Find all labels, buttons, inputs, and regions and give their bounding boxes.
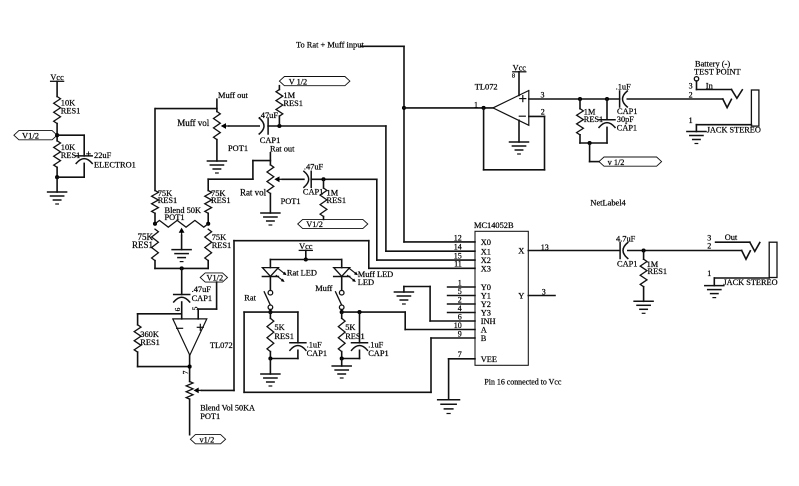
wire (to output jack) — [628, 250, 742, 252]
svg-text:TL072: TL072 — [210, 341, 233, 350]
label Rat out — [270, 145, 295, 154]
node (Rat RC) — [268, 356, 272, 360]
svg-text:RES1: RES1 — [648, 267, 668, 276]
svg-text:CAP1: CAP1 — [192, 294, 212, 303]
svg-text:VEE: VEE — [481, 355, 497, 364]
resistor RES1 1M (output) — [640, 251, 667, 287]
ground (Rat pot) — [261, 194, 280, 226]
svg-text:TEST POINT: TEST POINT — [694, 68, 741, 77]
svg-text:RES1: RES1 — [283, 99, 303, 108]
wire net X0 (buffer out) — [361, 46, 476, 242]
svg-text:1: 1 — [474, 100, 478, 109]
capacitor CAP1 30pF — [599, 99, 637, 143]
wire net X3 (blend wiper to mux) — [202, 241, 476, 391]
ground (blend wiper) — [172, 235, 191, 261]
jack body (output) — [769, 242, 777, 277]
svg-text:X0: X0 — [481, 238, 491, 247]
svg-text:NetLabel4: NetLabel4 — [590, 198, 626, 207]
svg-text:V1/2: V1/2 — [207, 274, 224, 283]
resistor RES1 5K (Rat) — [267, 312, 294, 358]
svg-text:Out: Out — [725, 233, 738, 242]
pot Rat vol POT1 — [240, 165, 301, 206]
wire — [56, 167, 58, 177]
svg-text:2: 2 — [541, 108, 545, 117]
resistor RES1 75K (bottom left) — [132, 229, 158, 268]
ground (VEE) — [438, 400, 460, 414]
svg-text:1: 1 — [707, 269, 711, 278]
IC U3 MC14052B — [474, 221, 528, 365]
wire — [269, 277, 271, 291]
wire net INH — [404, 287, 475, 322]
svg-text:.47uF: .47uF — [259, 111, 279, 120]
capacitor CAP1 .1uF (series) — [616, 82, 638, 116]
svg-text:X: X — [518, 246, 524, 256]
svg-text:.1uF: .1uF — [616, 82, 631, 91]
wire (wiper to cap) — [282, 178, 304, 180]
wire — [269, 310, 271, 313]
wire (to pin 6) — [181, 302, 183, 319]
wire (LED rail) — [270, 259, 341, 261]
pot Blend Vol 50KA POT1 — [186, 382, 255, 421]
node (output) — [642, 248, 646, 252]
svg-text:22uF: 22uF — [94, 151, 112, 160]
jack pin 1 (out) — [707, 269, 769, 278]
ground (Rat RC) — [261, 359, 280, 387]
svg-text:7: 7 — [458, 350, 462, 359]
LED Muff LED — [334, 260, 394, 288]
svg-text:Muff: Muff — [315, 284, 332, 293]
jack pin 3 (In) — [689, 82, 743, 99]
node (U2 out) — [188, 365, 192, 369]
wire net VEE — [449, 359, 475, 400]
ground (output jack) — [705, 278, 724, 298]
pot Muff vol POT1 — [177, 112, 248, 154]
svg-text:RES1: RES1 — [345, 332, 365, 341]
wire — [57, 163, 84, 177]
pin X out 13 — [528, 243, 619, 252]
resistor RES1 1M (U1 bias) — [577, 99, 604, 143]
svg-text:Rat vol: Rat vol — [240, 188, 267, 198]
svg-text:Pin 16 connected to Vcc: Pin 16 connected to Vcc — [484, 377, 561, 386]
wire net B (Rat select) — [244, 312, 475, 392]
svg-text:TL072: TL072 — [475, 82, 498, 91]
svg-text:RES1: RES1 — [61, 106, 81, 115]
wire (U2 output) — [189, 355, 191, 381]
svg-text:4.7uF: 4.7uF — [616, 234, 636, 243]
resistor R 10K (upper) — [54, 97, 81, 124]
resistor RES1 75K (top right) — [205, 179, 231, 224]
pin 2 feedback loop — [484, 108, 545, 170]
svg-text:Rat LED: Rat LED — [287, 269, 317, 278]
wire net X1 (Muff to mux) — [386, 126, 475, 251]
svg-text:9: 9 — [458, 329, 462, 338]
resistor RES1 75K (bottom right) — [205, 229, 231, 268]
capacitor CAP1 .47uF (blend) — [174, 285, 212, 303]
wire net A (Muff select) — [342, 312, 475, 329]
IC output labels X Y — [518, 246, 524, 301]
resistor RES1 360K (feedback) — [134, 314, 189, 367]
svg-text:RES1: RES1 — [132, 240, 153, 250]
svg-text:In: In — [706, 82, 714, 91]
jack pin 3 (Out) — [707, 233, 760, 251]
net flag V 1/2 (Muff) — [279, 77, 350, 87]
switch Muff — [315, 284, 344, 310]
svg-text:.47uF: .47uF — [304, 163, 324, 172]
svg-text:V 1/2: V 1/2 — [289, 77, 308, 86]
svg-text:POT1: POT1 — [165, 213, 185, 222]
wire (to input jack) — [627, 98, 723, 100]
pin stub Y3 — [448, 312, 475, 314]
resistor R 10K (lower) — [54, 141, 81, 168]
svg-text:CAP1: CAP1 — [368, 349, 388, 358]
svg-text:v1/2: v1/2 — [200, 435, 215, 444]
svg-text:11: 11 — [454, 260, 462, 269]
wire — [590, 143, 599, 162]
ground (U1) — [510, 120, 529, 154]
test point TEST POINT — [694, 68, 741, 90]
wire (blend sum) — [155, 267, 208, 269]
svg-text:RES1: RES1 — [274, 332, 294, 341]
wire (wiper to cap) — [229, 125, 259, 127]
wire (Rat out to 75K) — [208, 161, 270, 180]
node (30pF top) — [605, 97, 609, 101]
ground (output 1M) — [634, 287, 653, 314]
jack pin 2 — [689, 91, 732, 108]
svg-text:5: 5 — [191, 306, 200, 310]
wire — [56, 124, 58, 141]
capacitor ELECTRO1 22uF — [76, 150, 136, 170]
svg-text:+: + — [86, 150, 91, 160]
pin stub Y2 — [448, 303, 475, 305]
node (Muff sw) — [340, 310, 344, 314]
svg-text:13: 13 — [541, 243, 549, 252]
node (blend sum) — [180, 266, 184, 270]
jack body (input) — [751, 90, 759, 126]
node (Rat sw) — [268, 310, 272, 314]
pin 1 wire — [404, 100, 493, 109]
svg-text:Rat: Rat — [244, 294, 256, 303]
wire — [181, 268, 183, 294]
svg-text:1: 1 — [689, 116, 693, 125]
capacitor CAP1 .47uF (Muff) — [259, 111, 281, 145]
net flag v1/2 (blend vol) — [190, 435, 225, 445]
node (divider bottom) — [55, 175, 59, 179]
node (Vcc LEDs) — [304, 257, 308, 261]
svg-text:V1/2: V1/2 — [306, 220, 323, 229]
svg-text:2: 2 — [689, 91, 693, 100]
wire (pot bottom) — [189, 399, 191, 435]
node (1M top) — [578, 97, 582, 101]
note Pin 16 — [484, 377, 561, 386]
op-amp U2 TL072 — [173, 319, 233, 355]
svg-text:Rat out: Rat out — [270, 145, 295, 154]
ground (divider) — [48, 177, 67, 204]
power Vcc (left divider) — [50, 73, 64, 96]
wire net X2 (Rat to mux) — [377, 179, 475, 260]
svg-text:CAP1: CAP1 — [617, 124, 637, 133]
svg-text:2: 2 — [707, 242, 711, 251]
node (divider mid) — [55, 133, 59, 137]
pin Y out 3 — [528, 288, 555, 297]
svg-text:CAP1: CAP1 — [617, 260, 637, 269]
label TL072 (U1) — [475, 82, 498, 91]
net flag V1/2 (Rat) — [298, 219, 368, 229]
label JACK STEREO (output) — [723, 278, 777, 287]
wire (Rat out stub) — [269, 153, 271, 165]
svg-text:Muff out: Muff out — [218, 91, 249, 100]
svg-text:POT1: POT1 — [228, 144, 248, 153]
node (bias net) — [588, 141, 592, 145]
jack pin 1 — [689, 116, 752, 125]
capacitor CAP1 .1uF (Rat) — [290, 312, 327, 358]
label JACK STEREO (input) — [707, 125, 761, 134]
svg-text:RES1: RES1 — [158, 196, 178, 205]
ground (input jack) — [687, 125, 706, 144]
resistor RES1 5K (Muff) — [338, 312, 364, 358]
wire (Muff signal) — [268, 125, 386, 127]
svg-text:7: 7 — [181, 370, 190, 374]
svg-text:8: 8 — [512, 73, 515, 80]
svg-text:3: 3 — [541, 91, 545, 100]
svg-text:X1: X1 — [481, 247, 491, 256]
svg-text:Muff vol: Muff vol — [177, 118, 210, 128]
svg-text:JACK STEREO: JACK STEREO — [707, 125, 761, 134]
svg-text:RES1: RES1 — [211, 196, 231, 205]
label Muff out — [218, 91, 249, 100]
label NetLabel4 — [590, 198, 626, 207]
node (X0/op-amp) — [402, 106, 406, 110]
pin stub Y1 — [448, 295, 475, 297]
svg-text:B: B — [481, 334, 487, 343]
wire (to electro cap) — [57, 135, 84, 156]
ground (INH) — [394, 287, 413, 305]
capacitor CAP1 .1uF (Muff) — [352, 312, 389, 358]
switch Rat — [244, 290, 272, 309]
node (Muff cap tap) — [357, 310, 361, 314]
pin 3 wire — [529, 91, 620, 100]
node (Muff RC) — [340, 356, 344, 360]
jack pin 2 (out) — [707, 242, 750, 260]
ground (Muff RC) — [332, 359, 351, 379]
svg-text:3: 3 — [689, 82, 693, 91]
wire (Muff to 75K) — [154, 109, 156, 191]
svg-text:LED: LED — [358, 278, 374, 287]
wire — [342, 358, 360, 360]
label Battery (-) — [695, 59, 730, 68]
ground (Muff pot) — [207, 140, 226, 173]
IC pin numbers — [454, 233, 462, 359]
wire (Rat signal) — [311, 178, 377, 180]
svg-text:12: 12 — [454, 233, 462, 242]
power Vcc (U1) — [512, 64, 526, 96]
svg-text:To Rat + Muff input: To Rat + Muff input — [296, 40, 364, 49]
svg-text:14: 14 — [454, 243, 462, 252]
svg-text:Y: Y — [518, 291, 524, 301]
node (Muff cap/1M) — [277, 124, 281, 128]
IC pin name labels — [481, 238, 497, 364]
wire (Muff out) — [155, 99, 217, 111]
net flag v 1/2 (U1 bias) — [599, 157, 662, 167]
resistor RES1 1M (Muff bias) — [276, 86, 303, 126]
svg-text:RES1: RES1 — [327, 196, 347, 205]
net flag V1/2 (U2 bias) — [200, 273, 227, 283]
svg-text:MC14052B: MC14052B — [474, 221, 514, 230]
svg-text:v 1/2: v 1/2 — [608, 158, 625, 167]
wire (to pin 5) — [198, 282, 216, 319]
node (blend right) — [206, 222, 210, 226]
node (feedback) — [482, 106, 486, 110]
svg-text:RES1: RES1 — [212, 241, 232, 250]
label To Rat + Muff input — [296, 40, 364, 49]
pin label 6 — [173, 307, 182, 311]
svg-text:6: 6 — [173, 307, 182, 311]
wire — [341, 310, 343, 313]
pin stub Y0 — [448, 286, 475, 288]
wire — [341, 277, 343, 291]
LED Rat LED — [262, 260, 317, 283]
wire — [580, 142, 607, 144]
svg-text:V1/2: V1/2 — [22, 130, 39, 140]
node (blend left) — [153, 222, 157, 226]
svg-text:RES1: RES1 — [140, 338, 160, 347]
resistor RES1 1M (Rat bias) — [320, 179, 346, 219]
svg-text:POT1: POT1 — [281, 197, 301, 206]
svg-text:POT1: POT1 — [200, 412, 220, 421]
op-amp U1 TL072 — [493, 91, 529, 126]
svg-text:ELECTRO1: ELECTRO1 — [94, 161, 136, 170]
pin label 7 — [181, 370, 190, 374]
wire — [270, 358, 298, 360]
capacitor CAP1 4.7uF — [616, 234, 637, 268]
pin label 5 — [191, 306, 200, 310]
svg-text:CAP1: CAP1 — [260, 136, 280, 145]
power Vcc (LEDs) — [299, 242, 313, 259]
node (Rat cap/1M) — [321, 177, 325, 181]
svg-text:3: 3 — [542, 288, 546, 297]
net flag V1/2 (left) — [14, 130, 57, 140]
svg-text:CAP1: CAP1 — [307, 349, 327, 358]
pot Blend 50K POT1 — [155, 206, 208, 235]
resistor RES1 75K (top left) — [152, 189, 178, 224]
svg-text:JACK STEREO: JACK STEREO — [723, 278, 777, 287]
capacitor CAP1 .47uF (Rat) — [303, 163, 324, 197]
svg-text:X3: X3 — [481, 264, 491, 273]
